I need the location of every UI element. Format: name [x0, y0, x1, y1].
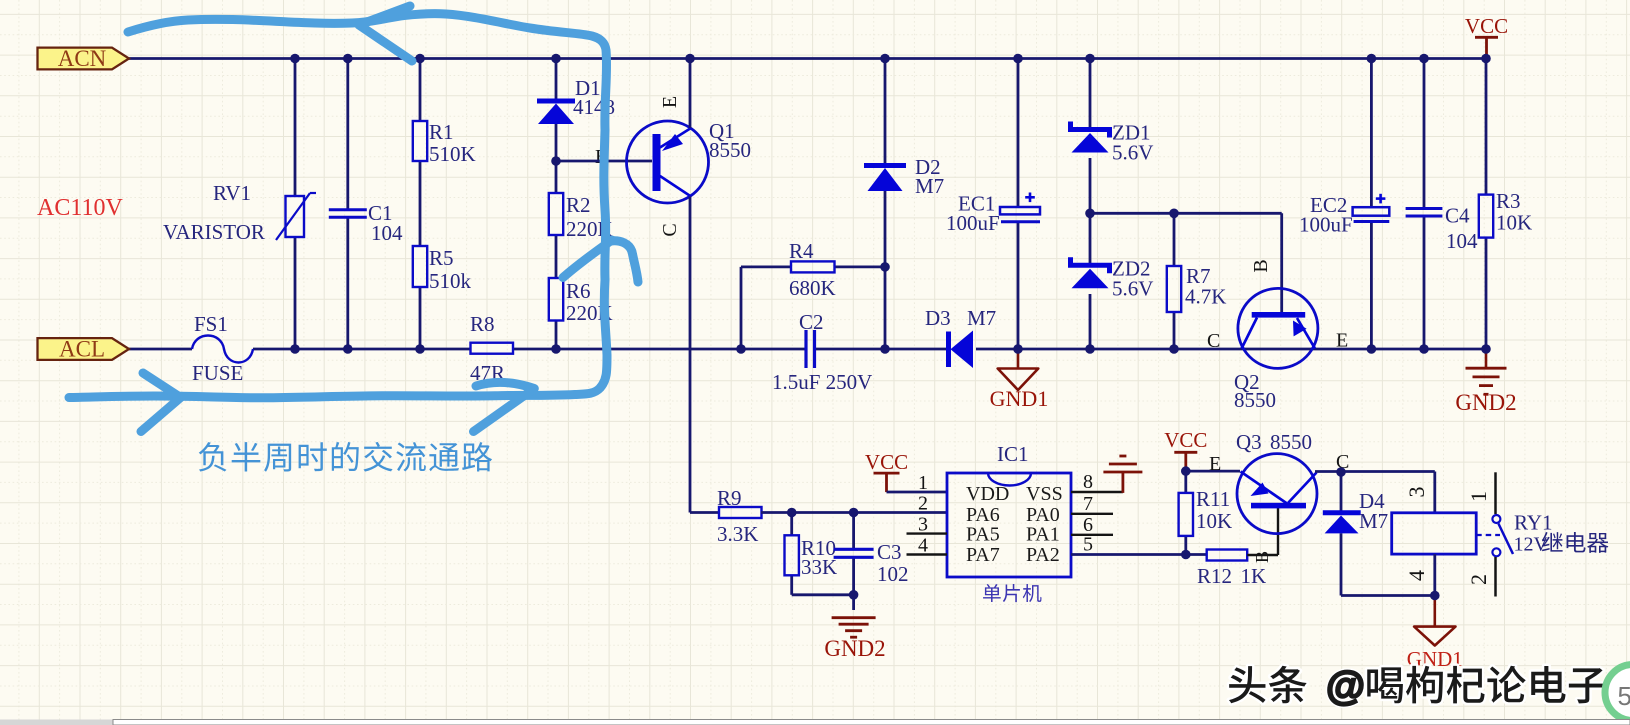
svg-text:4.7K: 4.7K — [1185, 285, 1226, 309]
svg-text:5.6V: 5.6V — [1112, 141, 1153, 165]
svg-text:VCC: VCC — [1164, 428, 1207, 452]
svg-text:M7: M7 — [967, 306, 996, 330]
svg-text:1.5uF 250V: 1.5uF 250V — [772, 370, 872, 394]
svg-text:M7: M7 — [915, 174, 944, 198]
svg-text:D3: D3 — [925, 306, 951, 330]
svg-text:PA1: PA1 — [1026, 524, 1060, 546]
svg-text:ACN: ACN — [58, 46, 107, 71]
svg-text:IC1: IC1 — [997, 442, 1029, 466]
svg-text:7: 7 — [1083, 493, 1093, 515]
svg-text:C4: C4 — [1445, 204, 1470, 228]
svg-text:E: E — [1209, 453, 1221, 475]
svg-text:RY1: RY1 — [1514, 511, 1553, 535]
svg-text:5: 5 — [1083, 534, 1093, 556]
svg-text:100uF: 100uF — [1299, 213, 1353, 237]
svg-text:4: 4 — [918, 535, 928, 557]
svg-text:E: E — [659, 96, 681, 108]
svg-text:VARISTOR: VARISTOR — [163, 220, 265, 244]
svg-text:PA2: PA2 — [1026, 544, 1060, 566]
svg-text:R9: R9 — [717, 486, 742, 510]
svg-text:1K: 1K — [1241, 564, 1267, 588]
svg-text:R3: R3 — [1496, 189, 1521, 213]
svg-text:@: @ — [1326, 664, 1365, 708]
svg-text:4: 4 — [1404, 570, 1429, 581]
svg-text:ACL: ACL — [59, 337, 105, 362]
svg-text:5.6V: 5.6V — [1112, 277, 1153, 301]
svg-text:RV1: RV1 — [213, 181, 251, 205]
svg-text:FS1: FS1 — [194, 312, 228, 336]
svg-text:R8: R8 — [470, 312, 495, 336]
svg-text:PA7: PA7 — [966, 544, 1000, 566]
svg-text:33K: 33K — [801, 555, 837, 579]
svg-text:AC110V: AC110V — [37, 195, 123, 221]
svg-text:8: 8 — [1083, 471, 1093, 493]
svg-text:100uF: 100uF — [946, 211, 1000, 235]
svg-text:C: C — [659, 223, 681, 236]
svg-text:3.3K: 3.3K — [717, 522, 758, 546]
svg-text:GND2: GND2 — [824, 636, 885, 661]
svg-text:R6: R6 — [566, 279, 591, 303]
svg-text:3: 3 — [918, 514, 928, 536]
svg-text:104: 104 — [1446, 229, 1478, 253]
svg-text:C3: C3 — [877, 540, 902, 564]
svg-text:510k: 510k — [429, 269, 472, 293]
svg-text:R11: R11 — [1196, 487, 1230, 511]
svg-text:10K: 10K — [1496, 211, 1532, 235]
svg-text:C: C — [1207, 330, 1220, 352]
svg-text:FUSE: FUSE — [192, 361, 243, 385]
svg-text:E: E — [1336, 330, 1348, 352]
svg-text:VDD: VDD — [966, 483, 1009, 505]
svg-text:VSS: VSS — [1026, 483, 1063, 505]
svg-text:B: B — [1252, 551, 1272, 563]
svg-text:R5: R5 — [429, 246, 454, 270]
svg-text:2: 2 — [918, 493, 928, 515]
svg-text:R12: R12 — [1197, 564, 1232, 588]
svg-text:8550: 8550 — [1234, 388, 1276, 412]
svg-text:6: 6 — [1083, 514, 1093, 536]
svg-text:8550: 8550 — [709, 138, 751, 162]
svg-text:B: B — [1250, 259, 1272, 272]
svg-text:Q3: Q3 — [1236, 430, 1262, 454]
svg-text:680K: 680K — [789, 276, 836, 300]
svg-text:PA5: PA5 — [966, 524, 1000, 546]
svg-text:VCC: VCC — [1465, 14, 1508, 38]
svg-text:C2: C2 — [799, 310, 824, 334]
svg-text:10K: 10K — [1196, 509, 1232, 533]
svg-text:M7: M7 — [1359, 509, 1388, 533]
svg-text:GND1: GND1 — [990, 386, 1049, 411]
svg-text:510K: 510K — [429, 142, 476, 166]
svg-text:GND2: GND2 — [1455, 390, 1516, 415]
svg-text:R4: R4 — [789, 239, 814, 263]
svg-text:2: 2 — [1466, 574, 1491, 585]
svg-text:VCC: VCC — [865, 450, 908, 474]
svg-text:1: 1 — [1466, 491, 1491, 502]
svg-text:R2: R2 — [566, 193, 591, 217]
svg-text:5: 5 — [1618, 681, 1630, 711]
svg-text:1: 1 — [918, 472, 928, 494]
svg-text:104: 104 — [371, 221, 403, 245]
svg-text:8550: 8550 — [1270, 430, 1312, 454]
svg-text:102: 102 — [877, 562, 909, 586]
svg-text:R1: R1 — [429, 120, 454, 144]
svg-text:3: 3 — [1404, 487, 1429, 498]
